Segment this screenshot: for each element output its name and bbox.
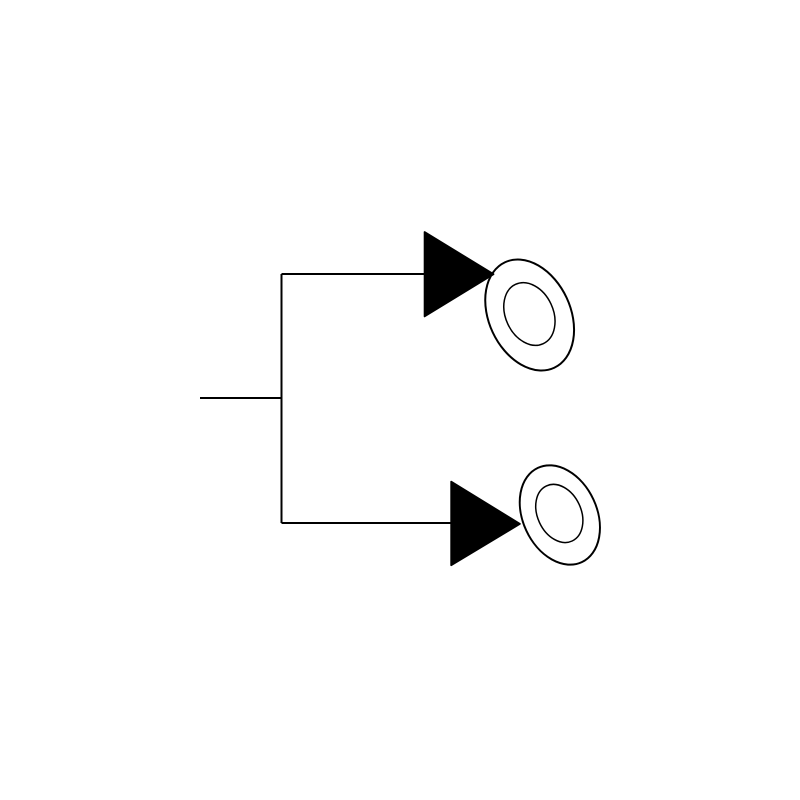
wire: vertical branch bus — [281, 274, 283, 523]
indicator donut inner ellipse (bottom) — [527, 477, 592, 551]
indicator donut outer ellipse (top) — [468, 245, 591, 385]
amplifier triangle (bottom) — [451, 482, 520, 566]
wire: input stub — [200, 397, 282, 399]
wire: top branch — [282, 273, 425, 275]
wire: bottom branch — [282, 522, 453, 524]
amplifier triangle (top) — [425, 232, 494, 316]
indicator donut outer ellipse (bottom) — [504, 452, 615, 578]
indicator donut inner ellipse (top) — [494, 274, 565, 353]
